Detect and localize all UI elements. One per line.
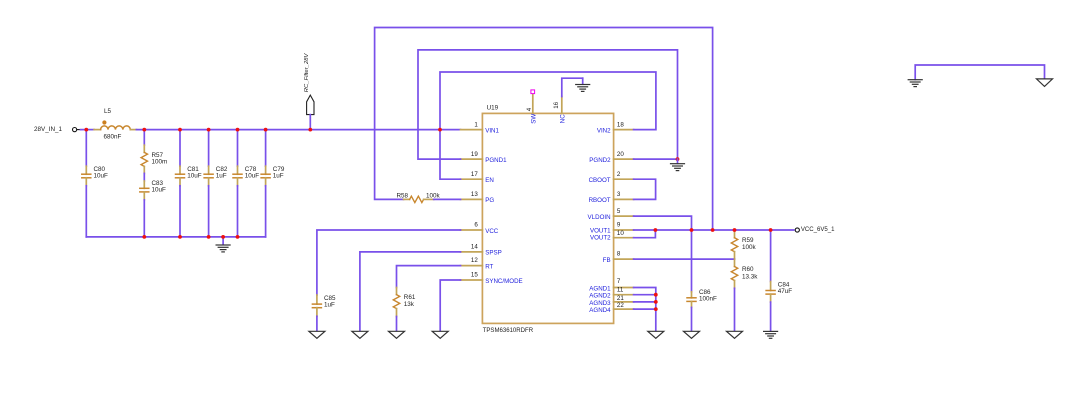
pin 11 AGND2 bbox=[589, 287, 633, 300]
svg-text:VOUT1: VOUT1 bbox=[590, 227, 611, 234]
svg-text:VIN1: VIN1 bbox=[485, 127, 499, 134]
wire SYNC/MODE bbox=[440, 280, 460, 331]
svg-text:7: 7 bbox=[617, 278, 621, 285]
svg-text:9: 9 bbox=[617, 222, 621, 229]
junction dots input bbox=[84, 128, 312, 239]
svg-text:AGND4: AGND4 bbox=[589, 307, 611, 314]
pin 10 VOUT2 bbox=[590, 230, 634, 242]
svg-text:NC: NC bbox=[560, 114, 567, 123]
wire VLDOIN down bbox=[634, 216, 692, 292]
pin 6 VCC bbox=[461, 222, 499, 235]
svg-text:16: 16 bbox=[553, 101, 560, 108]
ground triangle AGND bbox=[648, 331, 664, 338]
ground earth input bbox=[216, 237, 230, 252]
pin 15 SYNC/MODE bbox=[461, 272, 523, 285]
svg-text:21: 21 bbox=[617, 295, 624, 302]
pin 13 PG bbox=[461, 191, 495, 204]
wire EN to VIN bbox=[440, 130, 461, 180]
pin 3 RBOOT bbox=[589, 191, 634, 204]
wire VOUT2 jog bbox=[634, 230, 656, 238]
svg-text:4: 4 bbox=[526, 107, 533, 111]
wire input rail right bbox=[136, 129, 460, 131]
capacitor C86 bbox=[687, 289, 717, 331]
inductor L5 bbox=[94, 108, 136, 141]
svg-text:14: 14 bbox=[471, 243, 478, 250]
svg-text:RBOOT: RBOOT bbox=[589, 197, 611, 204]
svg-text:28V_IN_1: 28V_IN_1 bbox=[34, 126, 63, 133]
ground triangle topright bbox=[1037, 79, 1053, 87]
svg-text:100m: 100m bbox=[152, 158, 168, 165]
port 28V_IN_1 bbox=[34, 126, 81, 133]
svg-text:FB: FB bbox=[603, 257, 611, 264]
node VIN junction bbox=[438, 128, 442, 132]
wire AGND3 bbox=[634, 301, 656, 303]
svg-text:PG: PG bbox=[485, 197, 494, 204]
capacitor C85 bbox=[312, 295, 336, 331]
port VCC_6V5_1 bbox=[795, 227, 835, 233]
pin 7 AGND1 bbox=[589, 278, 633, 292]
svg-text:SW: SW bbox=[531, 114, 538, 124]
svg-text:L5: L5 bbox=[104, 108, 112, 115]
wire VIN loop bbox=[440, 72, 656, 130]
pin 4 SW top bbox=[526, 90, 538, 124]
pin 17 EN bbox=[461, 171, 494, 184]
SEC_TOPRIGHT bbox=[908, 65, 1052, 87]
svg-text:1uF: 1uF bbox=[216, 172, 227, 179]
wire SPSP bbox=[360, 252, 461, 331]
ground earth NC bbox=[576, 78, 590, 91]
svg-text:18: 18 bbox=[617, 121, 624, 128]
capacitor C78 bbox=[233, 130, 259, 237]
svg-text:PGND2: PGND2 bbox=[589, 157, 611, 164]
ground earth C84 bbox=[764, 331, 778, 338]
node PGND2 junction bbox=[676, 157, 680, 161]
ground triangle SPSP bbox=[352, 331, 368, 338]
pin 8 FB bbox=[603, 251, 634, 264]
svg-text:13: 13 bbox=[471, 191, 478, 198]
svg-text:1uF: 1uF bbox=[324, 302, 335, 309]
svg-text:100nF: 100nF bbox=[699, 295, 717, 302]
svg-text:10uF: 10uF bbox=[187, 172, 202, 179]
pin 5 VLDOIN bbox=[588, 208, 634, 221]
offpage flag RC_Filter_28V bbox=[304, 52, 314, 129]
svg-text:VCC_6V5_1: VCC_6V5_1 bbox=[801, 227, 835, 233]
wire R57-C83 bbox=[143, 173, 145, 181]
pin 21 AGND3 bbox=[589, 295, 633, 307]
svg-text:SPSP: SPSP bbox=[485, 250, 502, 257]
wire VOUT rail bbox=[634, 229, 794, 231]
svg-text:22: 22 bbox=[617, 302, 624, 309]
pin 14 SPSP bbox=[461, 243, 502, 256]
svg-text:13.3k: 13.3k bbox=[742, 274, 758, 281]
svg-text:1: 1 bbox=[474, 121, 478, 128]
pin 1 VIN1 bbox=[461, 121, 500, 134]
ground triangle SYNC bbox=[432, 331, 448, 338]
svg-text:VOUT2: VOUT2 bbox=[590, 235, 611, 242]
svg-text:3: 3 bbox=[617, 191, 621, 198]
svg-text:10: 10 bbox=[617, 230, 624, 237]
pin 22 AGND4 bbox=[589, 302, 633, 314]
svg-text:680nF: 680nF bbox=[104, 133, 122, 140]
svg-text:10uF: 10uF bbox=[94, 172, 109, 179]
ground triangle C86 bbox=[684, 331, 700, 338]
svg-text:RT: RT bbox=[485, 263, 493, 270]
pin 16 NC top bbox=[553, 97, 567, 124]
svg-text:PGND1: PGND1 bbox=[485, 157, 507, 164]
svg-text:11: 11 bbox=[617, 287, 624, 294]
capacitor C83 bbox=[140, 180, 166, 237]
svg-text:13k: 13k bbox=[404, 301, 415, 308]
ground triangle R61 bbox=[389, 331, 405, 338]
wire AGND1 bbox=[634, 288, 656, 331]
pin 18 VIN2 bbox=[597, 121, 634, 134]
svg-text:47uF: 47uF bbox=[778, 288, 793, 295]
svg-text:U19: U19 bbox=[487, 105, 499, 112]
svg-text:2: 2 bbox=[617, 171, 621, 178]
capacitor C82 bbox=[204, 130, 228, 237]
svg-text:VIN2: VIN2 bbox=[597, 127, 611, 134]
svg-text:R60: R60 bbox=[742, 266, 754, 273]
svg-text:VCC: VCC bbox=[485, 228, 499, 235]
svg-text:RC_Filter_28V: RC_Filter_28V bbox=[304, 52, 310, 92]
node AGND junctions bbox=[654, 293, 658, 311]
svg-text:VLDOIN: VLDOIN bbox=[588, 214, 611, 221]
capacitor C84 bbox=[766, 230, 792, 331]
svg-text:R61: R61 bbox=[404, 294, 416, 301]
resistor R60 bbox=[731, 259, 758, 331]
svg-text:CBOOT: CBOOT bbox=[589, 177, 611, 184]
wire AGND4 bbox=[634, 308, 656, 310]
wire CBOOT-RBOOT bbox=[634, 179, 656, 199]
svg-text:10uF: 10uF bbox=[152, 187, 167, 194]
wire floating ground link bbox=[915, 65, 1044, 79]
pin 9 VOUT1 bbox=[590, 222, 634, 235]
wire NC to ground bbox=[562, 78, 583, 96]
SEC_LEFTBOT bbox=[309, 230, 461, 338]
resistor R59 bbox=[731, 230, 756, 259]
svg-text:10uF: 10uF bbox=[245, 172, 260, 179]
wire FB bbox=[634, 258, 735, 260]
resistor R58 bbox=[397, 193, 441, 203]
SEC_IC bbox=[375, 28, 713, 335]
svg-text:17: 17 bbox=[471, 171, 478, 178]
pin 2 CBOOT bbox=[589, 171, 634, 184]
svg-text:AGND1: AGND1 bbox=[589, 285, 611, 292]
pin 20 PGND2 bbox=[589, 151, 633, 164]
SEC_INPUT bbox=[34, 52, 461, 251]
ground earth topright bbox=[908, 80, 922, 87]
svg-text:AGND2: AGND2 bbox=[589, 293, 611, 300]
svg-text:R59: R59 bbox=[742, 237, 754, 244]
IC U19 TPSM63610RDFR bbox=[482, 105, 613, 334]
capacitor C79 bbox=[261, 130, 285, 237]
ground earth PGND2 bbox=[671, 159, 685, 171]
ground triangle C85 bbox=[309, 331, 325, 338]
wire AGND2 bbox=[634, 294, 656, 296]
svg-text:5: 5 bbox=[617, 208, 621, 215]
wire input rail left bbox=[81, 129, 95, 131]
wire input bottom rail bbox=[86, 236, 265, 238]
svg-text:12: 12 bbox=[471, 257, 478, 264]
pin 12 RT bbox=[461, 257, 494, 270]
resistor R61 bbox=[393, 288, 416, 331]
svg-text:AGND3: AGND3 bbox=[589, 300, 611, 307]
svg-text:20: 20 bbox=[617, 151, 624, 158]
SEC_RIGHT bbox=[634, 216, 836, 338]
resistor R57 bbox=[141, 130, 167, 174]
svg-text:15: 15 bbox=[471, 272, 478, 279]
wire VCC bbox=[317, 230, 461, 295]
svg-text:EN: EN bbox=[485, 177, 494, 184]
capacitor C81 bbox=[176, 130, 202, 237]
svg-text:TPSM63610RDFR: TPSM63610RDFR bbox=[483, 328, 534, 334]
svg-text:8: 8 bbox=[617, 251, 621, 258]
node VOUT junctions bbox=[654, 228, 773, 232]
svg-text:R58: R58 bbox=[397, 193, 409, 200]
wire PG outer loop bbox=[375, 28, 713, 231]
svg-text:100k: 100k bbox=[742, 244, 757, 251]
capacitor C80 bbox=[82, 130, 108, 237]
svg-text:SYNC/MODE: SYNC/MODE bbox=[485, 278, 522, 285]
wire PGND2 stub bbox=[634, 158, 678, 160]
ground triangle R60 bbox=[727, 331, 743, 338]
wire RT bbox=[397, 266, 461, 288]
svg-text:1uF: 1uF bbox=[273, 172, 284, 179]
svg-text:6: 6 bbox=[474, 222, 478, 229]
wire R58 to PG bbox=[434, 198, 461, 200]
wire PGND loop bbox=[418, 50, 678, 159]
svg-text:19: 19 bbox=[471, 151, 478, 158]
pin 19 PGND1 bbox=[461, 151, 508, 164]
